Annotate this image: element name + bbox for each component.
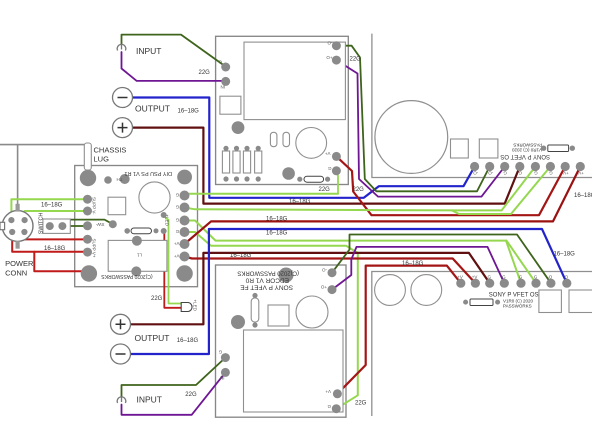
svg-text:V+: V+: [173, 254, 179, 259]
svg-text:22G: 22G: [185, 392, 197, 398]
svg-text:+LED: +LED: [165, 215, 170, 227]
svg-text:CHASSIS: CHASSIS: [94, 146, 127, 155]
svg-text:IN: IN: [221, 85, 226, 90]
svg-text:IN: IN: [220, 376, 225, 381]
svg-text:OUTPUT: OUTPUT: [135, 104, 170, 114]
svg-text:G: G: [175, 218, 179, 223]
svg-text:G: G: [534, 275, 538, 280]
svg-text:G: G: [502, 275, 506, 280]
svg-text:G: G: [175, 193, 179, 198]
svg-text:G: G: [327, 404, 331, 409]
svg-text:G: G: [503, 171, 507, 176]
svg-text:16–18G: 16–18G: [177, 338, 199, 344]
svg-text:CONN: CONN: [5, 269, 27, 278]
svg-text:SONY P VFET FE: SONY P VFET FE: [240, 284, 293, 291]
svg-text:16–18G: 16–18G: [574, 193, 592, 199]
svg-text:DIY PSU PS V1 R1: DIY PSU PS V1 R1: [124, 170, 172, 176]
svg-text:16–18G: 16–18G: [178, 109, 200, 115]
svg-text:16–18G: 16–18G: [554, 252, 576, 258]
svg-text:OUTPUT: OUTPUT: [135, 333, 170, 343]
svg-text:+V: +V: [578, 171, 584, 176]
svg-text:PASSWORKS: PASSWORKS: [503, 303, 532, 308]
svg-text:+V: +V: [457, 275, 463, 280]
svg-text:16–18G: 16–18G: [266, 231, 288, 237]
svg-text:G: G: [328, 166, 332, 171]
svg-text:SWITCH: SWITCH: [38, 213, 44, 235]
svg-text:-O: -O: [488, 171, 493, 176]
svg-text:V+: V+: [325, 389, 331, 394]
svg-text:(C)2020 PASSWORKS: (C)2020 PASSWORKS: [237, 270, 299, 276]
svg-text:L1: L1: [136, 253, 142, 258]
svg-text:+O: +O: [326, 55, 333, 60]
svg-text:G: G: [218, 60, 222, 65]
svg-text:SONY P VFET OS: SONY P VFET OS: [500, 153, 550, 159]
svg-text:+LED: +LED: [193, 300, 198, 312]
svg-text:(C)2020 PASSWORKS: (C)2020 PASSWORKS: [101, 273, 153, 279]
svg-text:22G: 22G: [355, 400, 367, 406]
svg-text:+V: +V: [563, 171, 569, 176]
svg-text:16–18G: 16–18G: [41, 203, 63, 209]
svg-text:LUG: LUG: [94, 155, 110, 164]
svg-text:G: G: [175, 229, 179, 234]
svg-text:G: G: [218, 350, 222, 355]
svg-text:G: G: [534, 171, 538, 176]
svg-text:16–18G: 16–18G: [230, 253, 252, 259]
svg-text:PASSWORKS: PASSWORKS: [513, 143, 542, 148]
svg-text:G: G: [519, 275, 523, 280]
svg-text:SUPP V+: SUPP V+: [92, 239, 97, 258]
svg-text:22G: 22G: [353, 187, 365, 193]
svg-text:G: G: [518, 171, 522, 176]
svg-text:16–18G: 16–18G: [402, 261, 424, 267]
svg-text:-O: -O: [322, 268, 327, 273]
svg-text:POWER: POWER: [5, 259, 34, 268]
svg-text:16–18G: 16–18G: [289, 199, 311, 205]
svg-text:22G: 22G: [350, 56, 362, 62]
svg-text:G: G: [549, 171, 553, 176]
svg-text:V+: V+: [173, 241, 179, 246]
svg-text:G: G: [175, 205, 179, 210]
svg-text:22G: 22G: [319, 187, 331, 193]
svg-text:G: G: [488, 275, 492, 280]
svg-text:-O: -O: [563, 275, 568, 280]
svg-text:-O: -O: [327, 41, 332, 46]
svg-text:-O: -O: [547, 275, 552, 280]
svg-text:-O: -O: [473, 171, 478, 176]
svg-text:22G: 22G: [151, 296, 163, 302]
svg-text:16–18G: 16–18G: [44, 246, 66, 252]
svg-text:EDCOR V1 R0: EDCOR V1 R0: [245, 277, 289, 284]
svg-text:V+: V+: [324, 151, 330, 156]
svg-text:TH: TH: [117, 177, 123, 182]
svg-text:SW-: SW-: [95, 222, 104, 227]
svg-text:+O: +O: [320, 285, 327, 290]
svg-text:INPUT: INPUT: [136, 46, 162, 56]
svg-text:22G: 22G: [199, 70, 211, 76]
svg-text:SUPP V-: SUPP V-: [92, 197, 97, 215]
svg-text:INPUT: INPUT: [137, 395, 163, 405]
svg-text:16–18G: 16–18G: [266, 216, 288, 222]
svg-text:+V: +V: [472, 275, 478, 280]
